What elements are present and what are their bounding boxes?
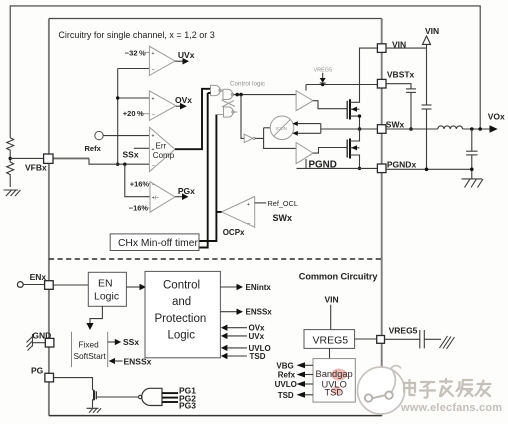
svg-text:Logic: Logic (94, 291, 119, 303)
svg-text:VREG5: VREG5 (314, 68, 333, 74)
svg-text:Control: Control (163, 280, 200, 292)
svg-text:TSD: TSD (325, 387, 344, 397)
svg-text:ICON: ICON (276, 126, 287, 131)
svg-text:OCPx: OCPx (223, 228, 245, 237)
svg-text:Bandgap: Bandgap (316, 369, 353, 379)
svg-text:+: + (247, 202, 250, 208)
svg-text:VBG: VBG (276, 361, 293, 370)
svg-text:+: + (152, 134, 155, 140)
svg-text:and: and (172, 296, 191, 308)
svg-text:EN: EN (98, 278, 113, 290)
svg-text:−16%: −16% (129, 204, 149, 213)
svg-text:Protection: Protection (155, 313, 207, 325)
svg-text:Circuitry for single channel,: Circuitry for single channel, x = 1,2 or… (58, 30, 214, 40)
svg-text:VBSTx: VBSTx (387, 70, 415, 80)
svg-text:+: + (152, 51, 155, 57)
svg-text:Refx: Refx (85, 144, 102, 153)
svg-text:UVx: UVx (178, 50, 195, 60)
svg-text:UVLO: UVLO (275, 380, 297, 389)
svg-text:www.elecfans.com: www.elecfans.com (400, 402, 502, 414)
svg-text:+20 %: +20 % (123, 109, 144, 118)
svg-text:SWx: SWx (386, 119, 405, 129)
svg-text:ENintx: ENintx (246, 283, 272, 292)
svg-text:VREG5: VREG5 (313, 335, 349, 347)
svg-text:Refx: Refx (278, 371, 296, 380)
svg-text:Common Circuitry: Common Circuitry (299, 272, 379, 282)
svg-text:CHx Min-off timer: CHx Min-off timer (118, 238, 198, 249)
svg-text:OVx: OVx (175, 95, 192, 105)
svg-text:VREG5: VREG5 (389, 325, 418, 335)
svg-text:−32 %: −32 % (125, 49, 146, 58)
svg-text:+/−: +/− (152, 196, 159, 202)
svg-text:VOx: VOx (488, 112, 505, 122)
svg-text:−: − (248, 221, 251, 227)
svg-text:Err: Err (156, 142, 167, 151)
svg-text:VIN: VIN (325, 295, 339, 305)
svg-text:VIN: VIN (425, 26, 439, 36)
svg-text:ENSSx: ENSSx (246, 308, 273, 317)
svg-text:UVx: UVx (249, 332, 265, 341)
svg-text:TSD: TSD (250, 352, 266, 361)
svg-text:Logic: Logic (168, 330, 196, 342)
svg-text:−: − (152, 112, 155, 118)
svg-text:−: − (152, 182, 155, 188)
svg-text:PGNDx: PGNDx (387, 160, 417, 170)
svg-text:PGND: PGND (309, 159, 337, 170)
svg-text:PG3: PG3 (179, 401, 196, 411)
svg-text:Ref_OCL: Ref_OCL (268, 199, 298, 208)
svg-text:−: − (152, 67, 155, 73)
svg-text:+: + (152, 147, 155, 153)
svg-text:PG: PG (31, 366, 44, 376)
svg-text:TSD: TSD (278, 391, 294, 400)
svg-text:+: + (152, 97, 155, 103)
svg-text:SoftStart: SoftStart (74, 351, 107, 361)
svg-text:SSx: SSx (123, 337, 139, 347)
svg-text:SSx: SSx (123, 150, 139, 160)
svg-text:Fixed: Fixed (79, 340, 100, 350)
svg-text:Comp: Comp (153, 151, 175, 160)
svg-text:SWx: SWx (273, 213, 293, 223)
svg-text:−: − (152, 163, 155, 169)
svg-text:VFBx: VFBx (25, 163, 47, 173)
svg-text:Control logic: Control logic (230, 81, 265, 88)
svg-text:PGx: PGx (178, 186, 195, 196)
svg-text:ENx: ENx (30, 272, 47, 282)
